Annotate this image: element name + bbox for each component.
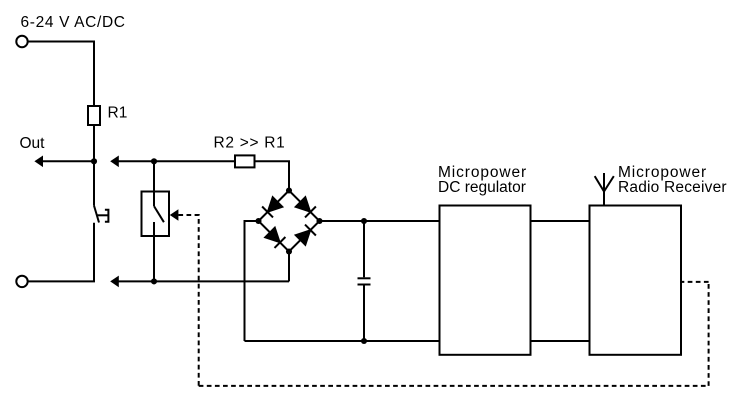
dashed control wire bottom — [199, 385, 709, 387]
capacitor C1 bottom plate — [358, 284, 371, 286]
wire bottom row arrow line — [118, 280, 289, 282]
terminal top-left — [16, 36, 27, 47]
dashed control wire right riser — [708, 282, 710, 386]
arrowhead R2 row — [110, 156, 119, 168]
wire R1 to switch — [93, 125, 95, 206]
relay K1 contact bottom stub — [153, 222, 155, 236]
wire switch to bottom terminal — [28, 223, 94, 282]
node junction cap top — [361, 218, 367, 224]
resistor R1 — [88, 106, 100, 125]
node bridge left — [255, 218, 261, 224]
diode D1 — [268, 197, 283, 212]
svg-text:DC regulator: DC regulator — [438, 179, 526, 196]
wire bridge left to ground bus — [245, 221, 259, 341]
node bridge top — [286, 187, 292, 193]
relay K1 contact top stub — [153, 192, 155, 207]
dashed control wire to relay — [178, 215, 198, 386]
diode D3 — [265, 227, 280, 242]
wire bridge right to regulator — [320, 220, 440, 222]
switch S1 actuator stem — [97, 214, 108, 216]
wire cap top lead — [363, 221, 365, 277]
wire R2 to bridge top — [255, 161, 290, 190]
diode D2 — [295, 197, 310, 212]
antenna ANT1 right arm — [604, 176, 614, 191]
node junction J1 — [91, 158, 97, 164]
wire ground bus — [245, 340, 440, 342]
node junction cap bottom — [361, 338, 367, 344]
node junction J2 — [151, 158, 157, 164]
wire between boxes bottom — [531, 340, 590, 342]
switch S1 blade — [94, 206, 99, 223]
box U1 Micropower DC regulator — [440, 206, 531, 355]
svg-text:Radio Receiver: Radio Receiver — [618, 179, 727, 196]
relay K1 contact blade — [154, 206, 164, 222]
bridge diamond wires — [259, 191, 320, 252]
box U2 Micropower Radio Receiver — [590, 206, 682, 355]
relay coil branch wire — [153, 161, 155, 191]
svg-text:Out: Out — [20, 135, 46, 152]
relay K1 box — [142, 192, 170, 237]
arrowhead Out — [34, 156, 43, 168]
node junction J3 — [151, 278, 157, 284]
arrowhead bottom row — [110, 276, 119, 288]
node bridge bottom — [286, 248, 292, 254]
wire relay to bottom row — [153, 236, 155, 281]
capacitor C1 top plate — [358, 277, 371, 279]
svg-text:R2 >> R1: R2 >> R1 — [214, 134, 286, 151]
wire top horizontal — [28, 42, 94, 107]
wire bottom row to bridge bottom — [288, 252, 290, 282]
wire cap bottom lead — [363, 286, 365, 342]
antenna ANT1 mast — [603, 173, 605, 206]
antenna ANT1 left arm — [595, 176, 604, 191]
dashed control arrowhead — [170, 209, 179, 221]
wire R2 row arrow line — [118, 160, 235, 162]
wire Out arrow line — [42, 160, 94, 162]
switch S1 actuator bracket — [105, 210, 109, 222]
dashed control wire from receiver — [681, 281, 709, 283]
wire between boxes top — [531, 220, 590, 222]
svg-text:6-24 V AC/DC: 6-24 V AC/DC — [21, 14, 126, 31]
svg-text:R1: R1 — [108, 105, 128, 122]
resistor R2 — [235, 155, 255, 167]
terminal bottom-left — [16, 276, 27, 287]
node bridge right — [316, 218, 322, 224]
diode D4 — [295, 230, 310, 245]
